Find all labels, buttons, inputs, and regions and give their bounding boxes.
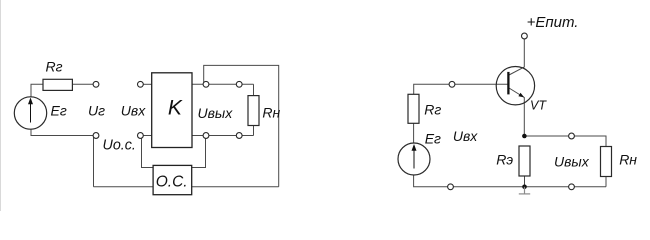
source arrow right — [412, 144, 417, 169]
source Eg arrow — [28, 98, 33, 123]
terminal Uvyx+ left — [203, 81, 209, 87]
terminal Ug- — [93, 133, 99, 139]
wire terminal Uvx+ to K box — [143, 83, 151, 85]
wire Rn load bottom — [253, 126, 255, 136]
wire Rg to source top — [413, 123, 415, 143]
wire source bottom to rail — [414, 175, 606, 187]
svg-text:K: K — [168, 96, 183, 119]
svg-text:Rн: Rн — [262, 105, 280, 121]
svg-text:Uвх: Uвх — [121, 102, 146, 118]
svg-text:Uо.с.: Uо.с. — [103, 138, 136, 154]
source Eg circle — [14, 97, 46, 129]
wire output to Rn load top — [253, 84, 255, 95]
page left edge line — [0, 0, 2, 211]
terminal Uvyx+ right — [236, 81, 242, 87]
svg-text:Uвх: Uвх — [453, 128, 478, 144]
svg-text:Uг: Uг — [88, 102, 105, 118]
feedback drop left — [142, 138, 154, 168]
ground — [519, 187, 530, 194]
terminal Uvyx+ right circuit — [569, 133, 575, 139]
wire common drop from Ug- to bottom rail — [93, 136, 95, 187]
amplifier K box — [152, 73, 192, 148]
terminal Uvyx- right circuit — [569, 184, 575, 190]
junction dot ground — [522, 185, 527, 190]
feedback drop right — [192, 138, 206, 168]
svg-text:О.С.: О.С. — [156, 174, 188, 191]
source Eg circle right — [398, 143, 430, 175]
resistor Re — [519, 146, 530, 176]
wire top rail to base — [414, 84, 509, 94]
resistor Rg — [43, 79, 72, 90]
terminal Uvyx- left — [203, 133, 209, 139]
wire emitter junction to Rn top — [524, 136, 606, 147]
terminal Uvyx- right — [236, 133, 242, 139]
wire Re to rail — [524, 176, 526, 187]
svg-text:Rэ: Rэ — [496, 152, 513, 168]
svg-text:VT: VT — [530, 99, 547, 113]
emitter wire — [509, 88, 524, 136]
terminal top rail — [449, 81, 455, 87]
svg-text:Rг: Rг — [424, 102, 441, 118]
wire source bottom to terminal Ug- — [31, 129, 93, 135]
terminal Uvx- — [138, 133, 144, 139]
outer loop top — [204, 65, 279, 186]
svg-text:Uвых: Uвых — [198, 105, 234, 121]
terminal bottom rail — [448, 184, 454, 190]
resistor Rn left circuit — [248, 96, 259, 126]
wire K output top — [192, 83, 254, 85]
collector wire — [509, 39, 524, 75]
resistor Rn right — [601, 147, 612, 177]
wire terminal Uvx- to K box — [143, 135, 151, 137]
terminal +Epit — [522, 33, 528, 39]
svg-text:Eг: Eг — [425, 130, 441, 146]
junction dot emitter — [522, 134, 527, 139]
bottom rail — [94, 186, 279, 188]
transistor base bar — [507, 72, 509, 95]
emitter arrowhead — [518, 93, 524, 98]
svg-text:Eг: Eг — [51, 103, 67, 119]
resistor Rg right — [408, 94, 419, 123]
wire resistor to terminal Ug+ — [72, 83, 93, 85]
wire source top to resistor — [31, 84, 43, 97]
wire Rn bottom up — [605, 177, 607, 187]
svg-text:Rн: Rн — [619, 152, 637, 168]
svg-text:+Eпит.: +Eпит. — [527, 14, 579, 31]
svg-text:Uвых: Uвых — [554, 154, 590, 170]
transistor VT circle — [496, 67, 534, 105]
terminal Ug+ — [93, 81, 99, 87]
wire K output bottom — [192, 135, 254, 137]
svg-text:Rг: Rг — [45, 59, 62, 75]
terminal Uvx+ — [138, 81, 144, 87]
feedback box O.C. — [153, 165, 192, 194]
